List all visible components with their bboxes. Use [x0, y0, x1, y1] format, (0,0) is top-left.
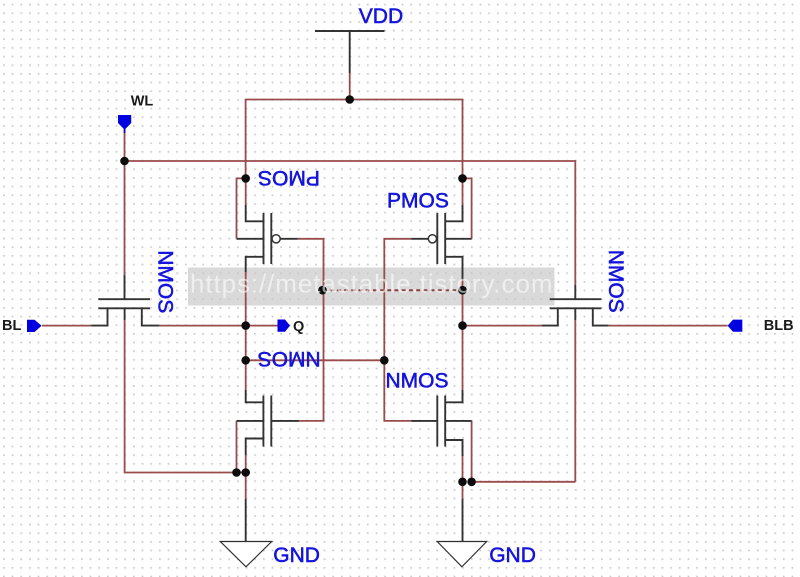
svg-text:NMOS: NMOS [386, 370, 449, 393]
svg-text:NMOS: NMOS [604, 250, 627, 313]
svg-text:https://metastable.tistory.com: https://metastable.tistory.com [190, 269, 553, 299]
svg-text:GND: GND [489, 544, 536, 567]
svg-text:PMOS: PMOS [258, 166, 320, 189]
svg-text:BLB: BLB [764, 318, 794, 334]
svg-text:WL: WL [131, 93, 154, 109]
svg-text:PMOS: PMOS [387, 190, 449, 213]
svg-text:GND: GND [273, 544, 320, 567]
svg-text:Q: Q [293, 319, 304, 335]
svg-text:BL: BL [2, 318, 21, 334]
svg-text:NMOS: NMOS [258, 347, 321, 370]
svg-text:NMOS: NMOS [153, 250, 176, 313]
svg-text:VDD: VDD [359, 5, 403, 28]
